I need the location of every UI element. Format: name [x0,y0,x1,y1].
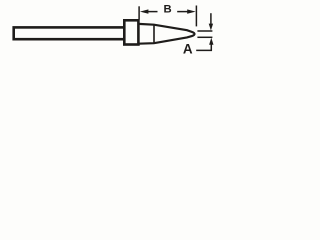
svg-text:A: A [183,41,193,56]
extension line B left (collar face) [138,6,140,19]
arrowhead A down [209,24,213,31]
dimension line B left segment [146,11,158,13]
extension line A top [197,30,212,32]
leader A with up arrow [196,44,211,50]
arrowhead A up [209,38,213,45]
arrowhead B left [140,9,149,13]
arrowhead B right [187,9,196,13]
extension line B right (tip end) [195,6,197,27]
tip cone outline [138,24,194,44]
arrow shaft A down [210,13,212,24]
collar (mounting ferrule) [124,20,138,44]
seam line (taper transition) [153,25,155,43]
shaft (capillary tube) [14,27,125,39]
background [0,0,219,62]
extension line A bottom [197,36,212,38]
svg-text:B: B [164,4,172,16]
dimension line B right segment [177,11,189,13]
